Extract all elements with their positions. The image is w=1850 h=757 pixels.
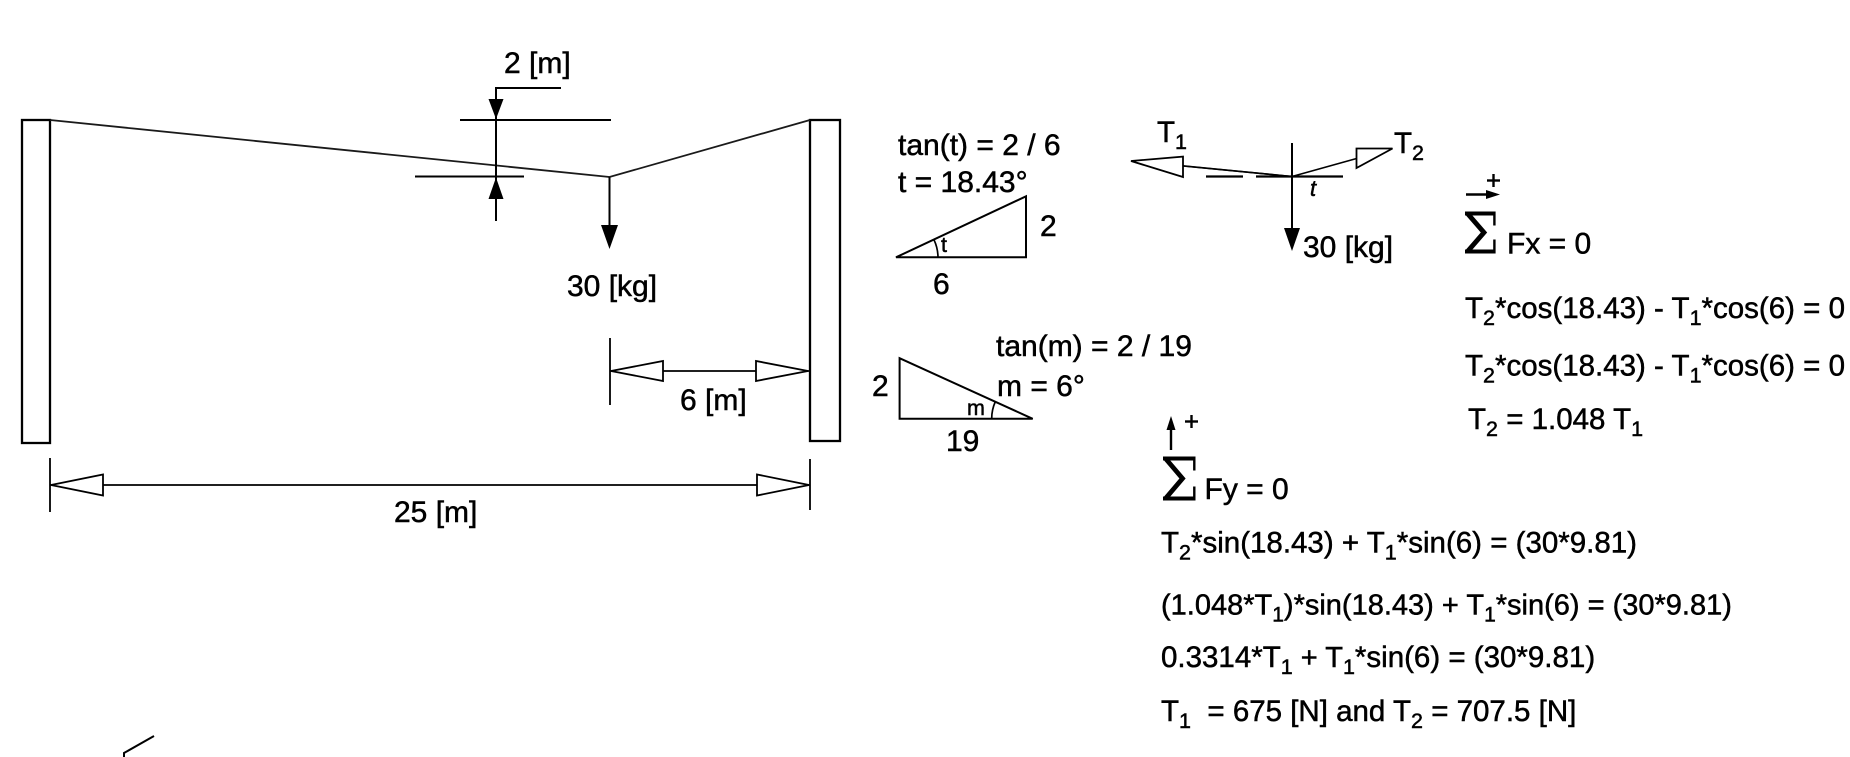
svg-text:T2*cos(18.43) - T1*cos(6) = 0: T2*cos(18.43) - T1*cos(6) = 0 [1465,350,1845,388]
svg-text:19: 19 [946,425,979,458]
svg-text:(1.048*T1)*sin(18.43) + T1*sin: (1.048*T1)*sin(18.43) + T1*sin(6) = (30*… [1161,590,1732,627]
svg-text:25 [m]: 25 [m] [394,496,477,529]
svg-text:tan(m) = 2 / 19: tan(m) = 2 / 19 [996,330,1192,363]
svg-text:2 [m]: 2 [m] [504,47,571,80]
svg-text:0.3314*T1 + T1*sin(6) = (30*9.: 0.3314*T1 + T1*sin(6) = (30*9.81) [1161,641,1595,679]
svg-text:30 [kg]: 30 [kg] [1303,231,1393,264]
svg-text:2: 2 [1040,210,1057,243]
svg-text:6: 6 [933,268,950,301]
svg-text:t: t [941,233,947,257]
svg-text:30 [kg]: 30 [kg] [567,270,657,303]
svg-text:tan(t) = 2 / 6: tan(t) = 2 / 6 [898,129,1061,162]
svg-text:T1 = 675 [N] and T2 = 707.5 [: T1 = 675 [N] and T2 = 707.5 [N] [1161,695,1576,733]
svg-text:Fx = 0: Fx = 0 [1507,228,1591,261]
svg-text:T2*sin(18.43) + T1*sin(6) = (3: T2*sin(18.43) + T1*sin(6) = (30*9.81) [1161,527,1637,565]
svg-text:Fy = 0: Fy = 0 [1205,473,1289,506]
svg-text:2: 2 [872,370,889,403]
svg-text:t: t [1310,176,1317,201]
svg-text:t = 18.43°: t = 18.43° [898,166,1028,199]
svg-text:T2*cos(18.43) - T1*cos(6) = 0: T2*cos(18.43) - T1*cos(6) = 0 [1465,292,1845,330]
svg-text:m = 6°: m = 6° [997,370,1085,403]
svg-text:m: m [967,396,985,420]
svg-text:6 [m]: 6 [m] [680,384,747,417]
